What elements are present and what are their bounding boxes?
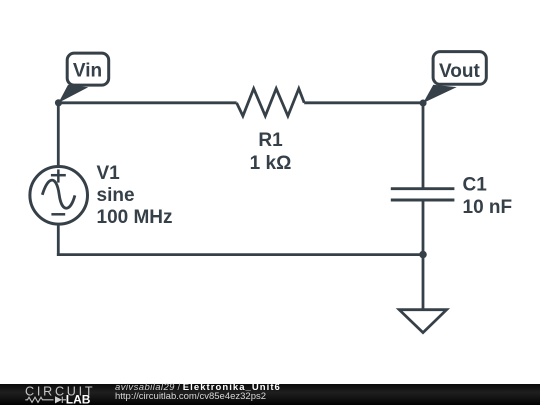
node dot Vout xyxy=(420,100,427,107)
capacitor C1 top plate xyxy=(391,187,455,190)
flag Vout box xyxy=(433,52,486,85)
resistor R1 xyxy=(237,89,305,116)
flag Vout tail xyxy=(423,85,457,103)
svg-text:C1: C1 xyxy=(463,175,488,196)
svg-text:sine: sine xyxy=(97,185,135,206)
capacitor C1 bottom plate xyxy=(391,199,455,202)
svg-text:100 MHz: 100 MHz xyxy=(97,207,173,228)
wire: C1 bottom plate down to bottom rail xyxy=(422,200,425,255)
ground xyxy=(399,310,446,333)
wire: ground stem xyxy=(422,255,425,310)
flag Vin tail xyxy=(59,85,89,103)
voltage source V1 xyxy=(30,167,88,225)
svg-text:R1: R1 xyxy=(258,130,283,151)
svg-text:LAB: LAB xyxy=(66,392,91,405)
wire: Vout node down to C1 top plate xyxy=(422,103,425,189)
svg-text:Vout: Vout xyxy=(439,61,480,82)
svg-text:1 kΩ: 1 kΩ xyxy=(250,153,292,174)
svg-text:V1: V1 xyxy=(97,163,121,184)
footer bar xyxy=(0,384,540,405)
wire left vertical: Vin node down to V1 top terminal xyxy=(57,103,60,165)
node dot bottom junction xyxy=(419,251,427,259)
wire top-right: R1 right terminal to Vout node xyxy=(304,101,423,104)
footer line 2 xyxy=(115,392,266,402)
flag Vin box xyxy=(67,53,109,85)
node dot Vin xyxy=(55,99,62,106)
wire bottom rail xyxy=(57,253,423,256)
svg-text:10 nF: 10 nF xyxy=(463,197,513,218)
svg-text:Vin: Vin xyxy=(73,61,102,82)
wire left vertical: V1 bottom terminal down to bottom rail xyxy=(57,225,60,256)
circuitlab logo xyxy=(0,384,100,405)
wire top-left: Vin node to R1 left terminal xyxy=(59,101,237,104)
footer line 1 xyxy=(115,383,281,393)
